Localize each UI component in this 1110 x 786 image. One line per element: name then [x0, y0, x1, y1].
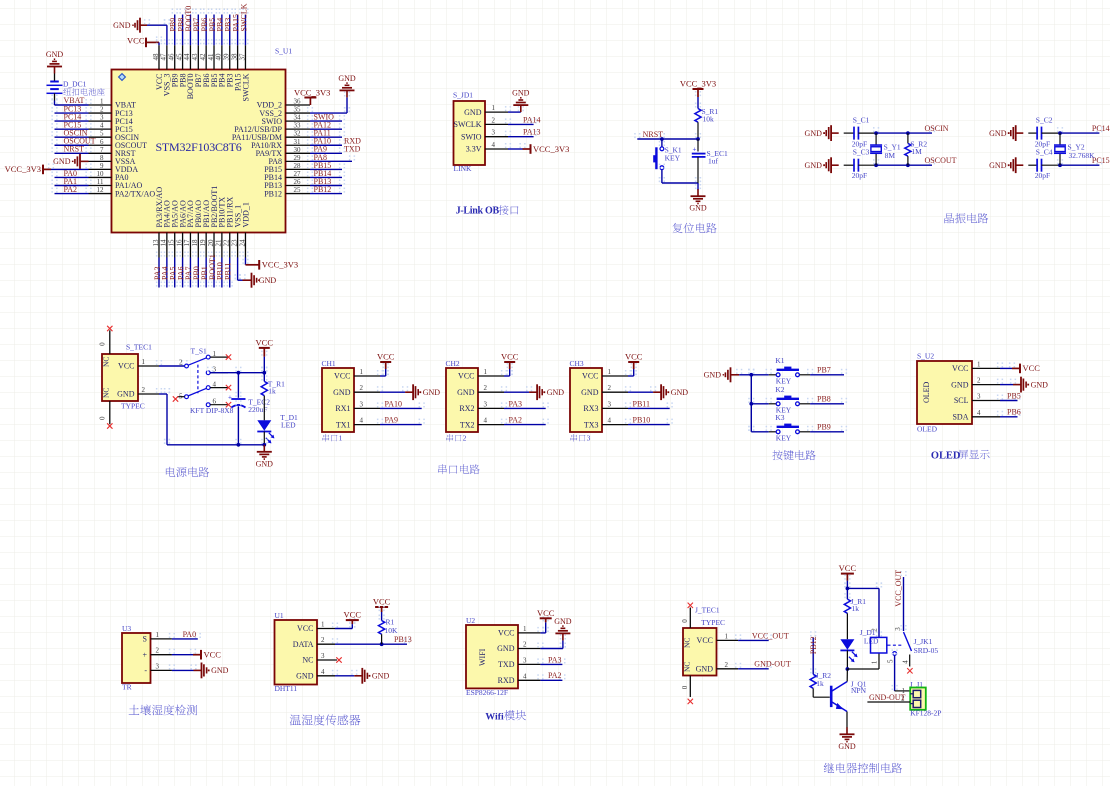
no connect T_S1 pin5	[173, 396, 178, 401]
net label PA2 wifi	[548, 671, 562, 680]
ground GND top	[113, 18, 147, 33]
net label PB3 top	[224, 18, 233, 32]
svg-text:33: 33	[294, 122, 302, 130]
junction PC14 a	[1058, 131, 1062, 135]
CH2 pin 2 GND	[457, 384, 504, 397]
wire R1 to LED relay	[846, 613, 848, 639]
svg-text:T_S1: T_S1	[191, 347, 208, 356]
svg-text:3: 3	[156, 662, 160, 670]
U1 pin 28 PB15	[264, 162, 310, 174]
svg-text:CH3: CH3	[570, 359, 584, 368]
svg-text:KFT DIP-8X8: KFT DIP-8X8	[190, 406, 234, 415]
designator S_C4	[1036, 148, 1053, 157]
svg-text:S_U1: S_U1	[275, 47, 292, 56]
svg-text:GND: GND	[296, 672, 314, 681]
U1 pin 11 PA1/AO	[89, 178, 143, 190]
svg-text:2: 2	[156, 647, 160, 655]
wire CH3 tx	[625, 419, 673, 425]
svg-text:PA0: PA0	[183, 630, 197, 639]
value KFT DIP-8X8	[190, 406, 234, 415]
value KEY K1	[776, 377, 792, 386]
value LED relay	[864, 637, 879, 646]
ground GND S_C4	[989, 157, 1023, 173]
power port VCC OLED	[1012, 363, 1040, 373]
designator U2 wifi	[466, 616, 475, 625]
svg-text:GND: GND	[117, 390, 135, 399]
power port VCC wifi	[537, 608, 555, 623]
svg-text:VCC: VCC	[373, 597, 391, 607]
wire CH1 vcc	[377, 363, 389, 376]
JD1 pin 2 SWCLK	[454, 116, 509, 129]
svg-text:OSCOUT: OSCOUT	[925, 156, 957, 165]
U1 pin 22 PB11/RX	[223, 196, 235, 257]
svg-text:6: 6	[100, 138, 104, 146]
svg-text:Wifi: Wifi	[485, 711, 504, 722]
wire PC13	[51, 107, 91, 113]
connector TEC1 body	[102, 354, 138, 401]
wire soil vcc	[169, 649, 196, 655]
power port VCC_3V3 pin9	[5, 164, 51, 174]
title 晶振电路	[945, 213, 989, 223]
wire PB13	[307, 180, 345, 186]
net label PA14	[523, 115, 541, 124]
wire vcc to node relay	[844, 575, 850, 589]
svg-text:K1: K1	[775, 356, 784, 365]
U1 pin 38 PA15	[230, 45, 242, 91]
J_TEC1 top NC pin	[681, 608, 692, 649]
net label PB10 bottom	[216, 262, 225, 280]
wire PB10 bottom	[219, 252, 225, 288]
svg-text:RXD: RXD	[498, 676, 515, 685]
no connect relay pin4	[907, 668, 912, 673]
svg-text:1M: 1M	[911, 147, 922, 156]
svg-text:GND: GND	[805, 129, 823, 138]
wire K1 left	[748, 369, 776, 375]
wire K2 right	[800, 398, 847, 404]
svg-text:1: 1	[100, 98, 104, 106]
wire R2 top	[907, 133, 909, 143]
wire PB11 bottom	[227, 252, 233, 288]
svg-text:TXD: TXD	[344, 145, 361, 154]
wire cap bottom	[235, 400, 241, 445]
net label PA15 top	[231, 14, 240, 32]
U1 pin 4 PC15	[89, 122, 133, 134]
svg-text:PB10: PB10	[633, 416, 651, 425]
wire PB5 top	[211, 9, 217, 46]
svg-text:48: 48	[152, 53, 160, 61]
designator CH1	[322, 359, 336, 368]
value 1M	[911, 147, 922, 156]
value 20pF S_C1	[852, 140, 867, 149]
U1 pin 4 GND	[296, 668, 335, 681]
TEC1 bottom NC pin	[99, 388, 111, 425]
net label PB11	[633, 399, 651, 408]
wire LED to rail	[263, 432, 265, 445]
connector CH2 body	[446, 368, 478, 432]
wire S_C4 to node	[1042, 164, 1061, 166]
wire CH3 gnd	[625, 386, 656, 392]
svg-text:23: 23	[230, 239, 238, 247]
ground GND JD1	[512, 89, 530, 113]
U1 pin 33 PA12/USB/DP	[234, 122, 310, 134]
svg-text:RX2: RX2	[459, 404, 474, 413]
designator OLED	[917, 425, 938, 434]
svg-text:1: 1	[725, 632, 729, 640]
U1 pin 47 VSS_3	[160, 45, 172, 96]
title J-Link OB接口	[456, 205, 519, 216]
svg-text:13: 13	[152, 239, 160, 247]
net label VBAT	[64, 96, 85, 105]
no connect top TEC1	[107, 326, 112, 331]
U1 pin 1 VBAT	[89, 98, 137, 110]
net label PA3 wifi	[548, 655, 562, 664]
svg-text:47: 47	[160, 53, 168, 61]
capacitor S_C4	[1037, 159, 1041, 172]
svg-text:PB12: PB12	[314, 185, 332, 194]
svg-text:1: 1	[870, 660, 878, 664]
svg-text:PB13: PB13	[394, 635, 412, 644]
svg-text:4: 4	[608, 417, 612, 425]
U1 pin 48 VCC	[152, 45, 164, 90]
net label PB13	[314, 177, 332, 186]
svg-text:GND: GND	[689, 204, 707, 213]
U1 pin 17 PA7/AO	[183, 200, 195, 257]
wire PB4 top	[219, 9, 225, 46]
capacitor S_C3	[854, 159, 858, 172]
net label PA2	[509, 416, 523, 425]
svg-text:4: 4	[100, 122, 104, 130]
ground GND pin35	[338, 74, 356, 98]
svg-text:3: 3	[100, 114, 104, 122]
svg-text:CH2: CH2	[446, 359, 460, 368]
junction K2	[749, 402, 753, 406]
no connect T_S1 pin4	[226, 385, 231, 390]
svg-text:NC: NC	[102, 357, 111, 367]
power port VCC_3V3 JD1	[523, 144, 570, 154]
net label GND-OUT2	[869, 693, 906, 702]
IC U1 STM32F103C8T6 body	[112, 70, 286, 233]
wire R to LED	[263, 396, 265, 421]
designator T_R1	[268, 380, 285, 389]
designator TYPEC relay	[701, 618, 725, 627]
svg-text:1uf: 1uf	[708, 157, 719, 166]
wire dht gnd	[332, 670, 358, 676]
DHT11 body	[275, 620, 318, 685]
wire VSS_1	[235, 252, 246, 281]
TEC1 top NC pin	[99, 330, 111, 367]
svg-text:S_JD1: S_JD1	[453, 91, 473, 100]
U1 pin 30 PA9/TX	[256, 146, 310, 158]
svg-text:1: 1	[339, 434, 343, 443]
title 土壤湿度检测	[129, 705, 197, 716]
svg-text:46: 46	[168, 53, 176, 61]
svg-text:GND: GND	[113, 21, 131, 30]
wire PA0	[51, 171, 91, 177]
svg-text:3: 3	[360, 400, 364, 408]
net label PA7 bottom	[184, 267, 193, 281]
svg-text:2: 2	[977, 377, 981, 385]
svg-text:TYPEC: TYPEC	[701, 618, 725, 627]
svg-text:1: 1	[156, 631, 160, 639]
designator S_C3	[853, 148, 870, 157]
net label PB14	[314, 169, 332, 178]
wire dht vcc	[332, 618, 356, 628]
svg-text:S_TEC1: S_TEC1	[126, 343, 152, 352]
wire OSCIN	[51, 131, 91, 137]
designator J_D1	[860, 628, 876, 637]
svg-text:VCC: VCC	[952, 364, 968, 373]
svg-text:44: 44	[183, 53, 191, 61]
svg-text:1k: 1k	[816, 679, 824, 688]
svg-text:1: 1	[977, 360, 981, 368]
wire PA8	[307, 155, 355, 161]
net label PA11	[314, 129, 331, 138]
svg-text:0: 0	[681, 619, 689, 623]
wire PA4 bottom	[164, 252, 170, 288]
ground GND OLED	[1013, 377, 1048, 393]
LED J_D1	[840, 639, 857, 662]
svg-text:26: 26	[294, 178, 302, 186]
connector CH1 body	[322, 368, 354, 432]
title 继电器控制电路	[824, 763, 902, 773]
designator J_JK1	[914, 637, 933, 646]
svg-text:42: 42	[199, 53, 207, 61]
value KEY	[665, 153, 681, 162]
wire TEC1 gnd rail	[156, 388, 268, 445]
wire CH3 rx	[625, 402, 673, 408]
switch T_S1 contact 3	[206, 366, 228, 375]
net label PB13	[394, 635, 412, 644]
wire PA7 bottom	[187, 252, 193, 288]
junction OSCOUT a	[874, 163, 878, 167]
wire CH2 tx	[501, 419, 549, 425]
wire SWIO	[307, 115, 345, 121]
wire 3.3V	[505, 143, 526, 149]
svg-text:GND: GND	[696, 665, 714, 674]
U1 pin 44 BOOT0	[183, 45, 195, 99]
svg-text:VDD_1: VDD_1	[241, 202, 250, 227]
net label PB9	[817, 423, 831, 432]
ground GND relay	[838, 727, 856, 751]
net label PB4 top	[216, 18, 225, 32]
ground GND pin23	[243, 273, 277, 288]
value NPN	[851, 686, 867, 695]
svg-text:S_C3: S_C3	[853, 148, 870, 157]
value LED power	[281, 421, 296, 430]
svg-text:VCC: VCC	[839, 563, 857, 573]
J_J1 pin 2 number	[901, 695, 905, 703]
net label PC15	[1092, 156, 1110, 165]
svg-text:PA2: PA2	[64, 185, 78, 194]
wire PB8 top	[179, 9, 185, 46]
capacitor S_EC1	[692, 146, 706, 157]
svg-text:PA2/TX/AO: PA2/TX/AO	[115, 189, 155, 198]
ground GND S_C1	[805, 125, 839, 141]
wire CH2 rx	[501, 402, 549, 408]
svg-text:3: 3	[894, 627, 902, 631]
svg-text:GND: GND	[259, 276, 277, 285]
power port VCC dht	[344, 610, 362, 625]
svg-text:8M: 8M	[885, 151, 896, 160]
svg-text:ESP8266-12F: ESP8266-12F	[466, 688, 508, 697]
wire PA1	[51, 180, 91, 186]
svg-text:3: 3	[977, 393, 981, 401]
svg-text:43: 43	[191, 53, 199, 61]
wire S_C1 to node	[858, 132, 876, 134]
no connect T_S1 pin1	[226, 354, 231, 359]
U1 pin 7 NRST	[89, 146, 136, 158]
designator ESP8266-12F	[466, 688, 508, 697]
U1 pin 5 OSCIN	[89, 130, 140, 142]
svg-text:PA3: PA3	[548, 655, 562, 664]
designator S_TEC1	[126, 343, 152, 352]
svg-text:NC: NC	[683, 638, 692, 648]
svg-text:2: 2	[100, 106, 104, 114]
svg-text:GND: GND	[333, 388, 351, 397]
OLED inside label	[922, 381, 931, 403]
value 1k J_R2	[816, 679, 824, 688]
value 1k power	[268, 387, 276, 396]
svg-text:GND: GND	[46, 50, 64, 59]
svg-text:VCC_3V3: VCC_3V3	[262, 260, 298, 270]
J_TEC1 pin 2 GND	[696, 661, 738, 674]
JD1 pin 4 3.3V	[466, 141, 508, 154]
wire PA11	[307, 131, 345, 137]
capacitor S_C2	[1037, 127, 1041, 140]
value KEY K3	[776, 434, 792, 443]
net label PB9 top	[169, 18, 178, 32]
wire R1 to data	[381, 634, 383, 644]
svg-text:3: 3	[484, 400, 488, 408]
push button S_K1 KEY	[653, 147, 664, 170]
svg-text:9: 9	[100, 162, 104, 170]
wire NRST	[51, 147, 91, 153]
svg-text:KEY: KEY	[665, 153, 681, 162]
svg-text:4: 4	[523, 672, 527, 680]
designator R1 dht	[386, 618, 395, 627]
resistor J_R2	[810, 674, 816, 688]
net label PB7 top	[192, 18, 201, 32]
U2wifi pin 3 TXD	[498, 656, 540, 669]
svg-text:TX3: TX3	[584, 420, 599, 429]
svg-text:VCC: VCC	[1023, 363, 1041, 373]
CH3 pin 4 TX3	[584, 417, 628, 430]
svg-text:GND: GND	[547, 388, 565, 397]
J_J1 pin 1 number	[902, 687, 906, 695]
junction OSCIN b	[906, 131, 910, 135]
svg-text:VCC: VCC	[582, 372, 598, 381]
svg-text:28: 28	[294, 162, 302, 170]
wire keys trunk	[736, 369, 754, 432]
resistor J_R1	[844, 599, 850, 613]
designator J_J1	[910, 680, 924, 689]
wire VBAT	[51, 95, 91, 106]
svg-text:30: 30	[294, 146, 302, 154]
wire S_C3 to node	[858, 164, 876, 166]
net label PA3	[509, 399, 523, 408]
junction relay bottom	[846, 667, 850, 671]
wire PA6 bottom	[179, 252, 185, 288]
U2 pin 3 SCL	[954, 393, 1000, 406]
svg-text:GND: GND	[989, 161, 1007, 170]
wire PB3 top	[227, 9, 233, 46]
svg-text:CH1: CH1	[322, 359, 336, 368]
designator S_U1	[275, 47, 292, 56]
wire R2 bottom	[907, 156, 909, 165]
ground GND CH2	[529, 384, 564, 400]
wire node OSCIN	[873, 127, 935, 133]
power port VCC relay	[839, 563, 857, 581]
wire to GND reset	[695, 177, 701, 190]
designator S_U2	[917, 351, 934, 360]
wire gnd to S_C3	[844, 164, 854, 166]
net label NRST	[643, 130, 664, 139]
designator S_C2	[1036, 116, 1053, 125]
svg-text:VCC: VCC	[334, 372, 350, 381]
svg-text:3: 3	[492, 129, 496, 137]
JD1 pin 3 SWIO	[461, 129, 508, 142]
U1 pin 42 PB6	[199, 45, 211, 87]
U2wifi pin 1 VCC	[498, 625, 540, 638]
U1 pin 16 PA6/AO	[175, 200, 187, 257]
designator S_EC1	[707, 149, 729, 158]
svg-text:16: 16	[175, 239, 183, 247]
switch T_S1 pole 2-1	[179, 350, 228, 368]
ground GND CH3	[653, 384, 688, 400]
net label PB11 bottom	[224, 263, 233, 281]
U1 pin 10 PA0	[89, 170, 129, 182]
svg-text:2: 2	[725, 661, 729, 669]
wire K3 right	[800, 426, 847, 432]
svg-text:20: 20	[207, 239, 215, 247]
svg-text:VCC: VCC	[537, 608, 555, 618]
wire PA0 soil	[169, 633, 201, 639]
svg-text:1: 1	[321, 621, 325, 629]
value KF128-2P	[910, 709, 941, 718]
svg-text:U2: U2	[466, 616, 475, 625]
value 8M	[885, 151, 896, 160]
power port VCC CH2	[501, 352, 519, 370]
svg-text:OSCIN: OSCIN	[925, 124, 949, 133]
U1 pin 36 VDD_2	[257, 98, 310, 110]
power port VCC CH3	[625, 352, 643, 370]
svg-text:1: 1	[608, 368, 612, 376]
wire CH2 gnd	[501, 386, 532, 392]
wire vcc riser	[261, 351, 267, 373]
net label PA1	[64, 177, 78, 186]
designator S_R2	[910, 140, 927, 149]
wire PA9	[307, 147, 345, 153]
switch T_S1 contact 6	[206, 398, 228, 407]
svg-text:OLED: OLED	[931, 450, 960, 461]
svg-text:8: 8	[100, 154, 104, 162]
svg-text:GND: GND	[951, 380, 969, 389]
svg-text:1: 1	[492, 104, 496, 112]
resistor R1 dht	[379, 621, 385, 635]
svg-text:GND: GND	[256, 459, 274, 468]
U1 pin 31 PA10/RX	[251, 138, 310, 150]
CH3 pin 2 GND	[581, 384, 628, 397]
U2 pin 1 VCC	[952, 360, 1000, 373]
svg-text:1: 1	[360, 368, 364, 376]
wire PB6 top	[203, 9, 209, 46]
svg-text:SWCLK: SWCLK	[239, 3, 248, 31]
junction vcc node	[262, 371, 266, 375]
net label SWIO	[314, 113, 335, 122]
designator TYPEC	[121, 402, 145, 411]
svg-text:35: 35	[294, 106, 302, 114]
capacitor T_EC2	[228, 394, 246, 408]
